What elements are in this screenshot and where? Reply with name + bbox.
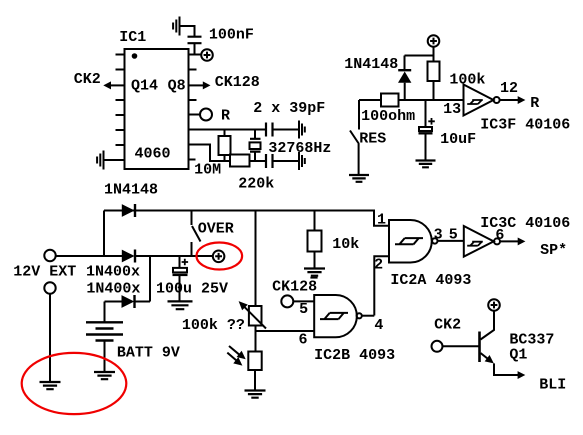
svg-text:10uF: 10uF bbox=[440, 131, 476, 148]
svg-text:RES: RES bbox=[359, 130, 386, 147]
ground (top, for 100nF) bbox=[173, 17, 179, 36]
svg-text:CK128: CK128 bbox=[215, 74, 260, 91]
resistor R 10k bbox=[314, 211, 316, 231]
node CK2 terminal bbox=[432, 341, 443, 352]
wire cap to VDD pin bbox=[189, 43, 202, 54]
IC1 right pin stubs bbox=[189, 70, 197, 160]
wire oscillator lower line bbox=[189, 145, 231, 162]
ground (left terminal) bbox=[40, 382, 61, 389]
svg-text:IC2A 4093: IC2A 4093 bbox=[390, 272, 471, 289]
diode D1 1N4148 (in top line) bbox=[122, 204, 135, 217]
wire pot junction to gate pin 6 bbox=[255, 330, 314, 332]
ground (battery) bbox=[94, 372, 115, 379]
wire branch up to over-diode line bbox=[103, 211, 105, 257]
capacitor C 100u 25V (polarized) bbox=[179, 256, 181, 268]
arrow to R output bbox=[518, 96, 526, 104]
wire CK128 to pin 5 bbox=[293, 300, 314, 302]
annotation red ellipse around grounds bbox=[22, 353, 127, 414]
svg-text:100k ??: 100k ?? bbox=[182, 317, 245, 334]
resistor R 100ohm bbox=[381, 94, 399, 107]
potentiometer R 100k ?? bbox=[249, 306, 262, 326]
wire R pin bbox=[189, 114, 201, 116]
svg-text:13: 13 bbox=[443, 101, 461, 118]
wire VDD down bbox=[405, 47, 434, 56]
switch OVER bbox=[191, 211, 193, 226]
capacitor C 39pF top bbox=[266, 123, 273, 137]
arrow to SP* bbox=[518, 238, 526, 246]
svg-text:SP*: SP* bbox=[540, 242, 567, 259]
battery BATT 9V bbox=[86, 322, 123, 340]
NAND gate IC2A 4093 bbox=[389, 220, 432, 263]
wire sensor branch down bbox=[255, 211, 257, 306]
wire oscillator top line bbox=[189, 129, 267, 131]
switch RES bbox=[358, 100, 360, 130]
node R open terminal bbox=[200, 109, 212, 121]
svg-text:CK2: CK2 bbox=[74, 71, 101, 88]
arrow to CK128 bbox=[203, 81, 211, 89]
node 12V EXT terminal bbox=[44, 250, 55, 261]
wire top line to gate pin 1 bbox=[374, 211, 389, 226]
svg-text:12V EXT: 12V EXT bbox=[13, 263, 76, 280]
svg-text:2 x 39pF: 2 x 39pF bbox=[253, 100, 325, 117]
resistor R 100k (top right) bbox=[428, 62, 440, 82]
svg-text:1N4148: 1N4148 bbox=[104, 182, 158, 199]
wire 220k to bottom cap bbox=[250, 160, 267, 162]
svg-text:1: 1 bbox=[377, 212, 386, 229]
wire reset node bbox=[359, 99, 464, 101]
svg-text:10M: 10M bbox=[194, 161, 221, 178]
NAND gate IC2B 4093 bbox=[314, 295, 357, 337]
annotation red ellipse around VDD bbox=[197, 243, 243, 270]
svg-text:100u 25V: 100u 25V bbox=[156, 280, 228, 297]
svg-text:10k: 10k bbox=[332, 236, 359, 253]
wire gate output to inverter bbox=[438, 240, 464, 242]
crystal X1 32768Hz bbox=[250, 139, 261, 152]
wire pot to LDR bbox=[255, 325, 257, 352]
wire IC2B output bbox=[362, 315, 375, 317]
capacitor C 39pF bottom bbox=[266, 154, 273, 168]
power VDD symbol at IC1 bbox=[201, 49, 213, 61]
svg-text:CK128: CK128 bbox=[272, 279, 317, 296]
wire LDR to ground bbox=[254, 370, 256, 390]
wire 12V rail bbox=[56, 255, 123, 257]
svg-text:BATT 9V: BATT 9V bbox=[117, 345, 180, 362]
wire cap to ground (top) bbox=[273, 129, 300, 131]
transistor Q1 BC337 bbox=[478, 332, 481, 363]
IC1 left pin stubs bbox=[116, 55, 125, 146]
photoresistor LDR bbox=[248, 352, 261, 371]
ground (right, osc top) bbox=[299, 121, 305, 139]
svg-text:1N4148: 1N4148 bbox=[344, 56, 398, 73]
capacitor C 10uF (polarized) bbox=[425, 100, 427, 127]
wire cap to ground (bottom) bbox=[273, 160, 300, 162]
ground (right, osc bottom) bbox=[299, 152, 305, 170]
ground (below 10k) bbox=[304, 269, 325, 276]
svg-text:4: 4 bbox=[374, 317, 383, 334]
capacitor C 100nF bbox=[188, 37, 202, 44]
svg-text:IC3F 40106: IC3F 40106 bbox=[480, 116, 570, 133]
resistor R 10M bbox=[219, 136, 231, 155]
wire base bbox=[443, 345, 480, 347]
power VDD symbol (circled) bbox=[213, 250, 225, 262]
svg-text:Q14: Q14 bbox=[131, 77, 158, 94]
diode D2 1N400x (in 12V rail) bbox=[122, 250, 135, 263]
node CK128 terminal bbox=[281, 295, 293, 307]
wire gate pin 2 riser bbox=[374, 256, 389, 315]
svg-text:1N400x: 1N400x bbox=[86, 263, 140, 280]
svg-text:IC3C 40106: IC3C 40106 bbox=[480, 215, 570, 232]
svg-text:1N400x: 1N400x bbox=[86, 280, 140, 297]
ground (below LDR) bbox=[245, 391, 266, 398]
svg-text:IC1: IC1 bbox=[119, 29, 146, 46]
wire terminal to ground bbox=[49, 294, 51, 382]
svg-text:4060: 4060 bbox=[135, 146, 171, 163]
wire inverter output bbox=[500, 99, 518, 101]
svg-text:2: 2 bbox=[374, 257, 383, 274]
wire rail diode to VDD node bbox=[135, 255, 213, 257]
diode D3 1N400x (battery) bbox=[105, 301, 123, 303]
svg-text:12: 12 bbox=[500, 80, 518, 97]
overbar on CK128 bbox=[310, 277, 317, 279]
inverter U IC3C 40106 bbox=[464, 226, 494, 257]
ground (left of IC1) bbox=[97, 151, 103, 170]
svg-text:R: R bbox=[530, 95, 539, 112]
wire IC1 ground pin bbox=[104, 159, 125, 161]
IC U1: 4060 counter IC1 body bbox=[125, 49, 189, 169]
svg-text:IC2B 4093: IC2B 4093 bbox=[314, 347, 395, 364]
svg-text:R: R bbox=[221, 107, 230, 124]
power VDD symbol (Q1 collector) bbox=[488, 299, 500, 311]
LDR light arrows bbox=[229, 346, 240, 355]
wire diode to battery bbox=[104, 302, 106, 323]
wire battery branch down bbox=[149, 256, 151, 302]
svg-text:CK2: CK2 bbox=[434, 317, 461, 334]
ground (below RES) bbox=[349, 175, 369, 182]
svg-text:OVER: OVER bbox=[198, 221, 234, 238]
ground (below 10uF) bbox=[416, 161, 436, 168]
node second terminal bbox=[44, 282, 55, 293]
svg-text:100nF: 100nF bbox=[209, 27, 254, 44]
wire top distribution line bbox=[104, 210, 375, 212]
svg-text:Q8: Q8 bbox=[168, 77, 186, 94]
inverter U IC3F 40106 bbox=[464, 85, 494, 116]
pin-1 marker dot on IC1 bbox=[132, 53, 138, 59]
svg-text:100ohm: 100ohm bbox=[361, 108, 415, 125]
diode D 1N4148 (vertical) bbox=[404, 56, 406, 71]
svg-text:5: 5 bbox=[299, 301, 308, 318]
resistor R 220k bbox=[230, 155, 250, 167]
svg-text:220k: 220k bbox=[238, 176, 274, 193]
svg-text:BLI: BLI bbox=[539, 377, 566, 394]
wire Q8 output bbox=[189, 84, 205, 86]
wire ground to cap bbox=[180, 26, 195, 37]
svg-text:Q1: Q1 bbox=[509, 347, 527, 364]
arrow to CK2 bbox=[103, 81, 111, 89]
wire Q14 output bbox=[110, 84, 125, 86]
arrow to BLI bbox=[518, 371, 526, 379]
svg-text:6: 6 bbox=[299, 332, 308, 349]
ground (below 100u) bbox=[168, 301, 193, 309]
wire inverter output bbox=[500, 240, 518, 242]
power VDD symbol top right bbox=[428, 35, 440, 47]
